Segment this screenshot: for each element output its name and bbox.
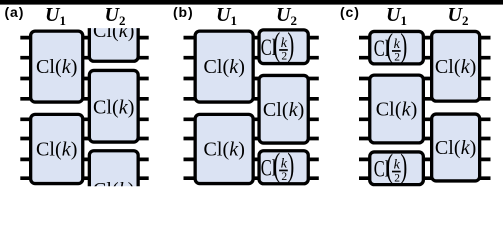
unitary U1 gate Cl(k) b-top xyxy=(195,31,253,102)
wire c q0 xyxy=(359,36,491,40)
svg-text:Cl(k): Cl(k) xyxy=(263,99,305,121)
wire c q7 xyxy=(359,176,491,180)
unitary U2 gate Cl(k) c-bottom xyxy=(432,114,480,181)
unitary U2 gate Cl(k) b-middle xyxy=(259,75,308,143)
svg-text:(a): (a) xyxy=(5,4,25,20)
wire a q7 xyxy=(20,176,148,180)
svg-text:Cl(k): Cl(k) xyxy=(36,139,77,161)
svg-text:2: 2 xyxy=(281,171,287,183)
wire b q1 xyxy=(184,56,319,60)
wire b q0 xyxy=(184,36,319,40)
svg-text:(: ( xyxy=(273,147,280,184)
wire b q3 xyxy=(184,97,319,101)
wire c q3 xyxy=(359,97,491,101)
wire b q7 xyxy=(184,176,319,180)
unitary U1 gate Cl(k) c-middle xyxy=(370,75,424,143)
svg-text:k: k xyxy=(394,158,401,173)
svg-text:(: ( xyxy=(273,27,280,64)
wire c q4 xyxy=(359,117,491,121)
svg-text:Cl(k): Cl(k) xyxy=(376,99,418,121)
wire b q6 xyxy=(184,158,319,162)
svg-text:k: k xyxy=(281,36,288,51)
svg-text:k: k xyxy=(281,157,288,172)
svg-text:): ) xyxy=(400,148,407,185)
wire c q1 xyxy=(359,56,491,60)
svg-text:): ) xyxy=(287,147,294,184)
unitary U1 gate Cl(k/2) c-bottom xyxy=(370,148,424,185)
svg-text:2: 2 xyxy=(394,172,400,184)
wire a q6 xyxy=(20,158,148,162)
wire a q0 xyxy=(20,36,148,40)
svg-text:(c): (c) xyxy=(340,4,360,20)
unitary U2 gate Cl(k/2) b-bottom xyxy=(259,147,308,184)
unitary U2 gate Cl(k) a-bottom (clipped) xyxy=(89,151,138,221)
svg-text:Cl(k): Cl(k) xyxy=(203,56,245,78)
svg-text:(: ( xyxy=(386,148,393,185)
svg-text:2: 2 xyxy=(394,52,400,64)
wire c q2 xyxy=(359,77,491,81)
wire b q5 xyxy=(184,137,319,141)
svg-text:2: 2 xyxy=(281,51,287,63)
wire b q2 xyxy=(184,77,319,81)
wire a q1 xyxy=(20,56,148,60)
wire a q2 xyxy=(20,77,148,81)
svg-text:(: ( xyxy=(386,28,393,65)
svg-text:Cl(k): Cl(k) xyxy=(36,56,77,78)
wire a q5 xyxy=(20,137,148,141)
wire a q3 xyxy=(20,97,148,101)
svg-text:Cl(k): Cl(k) xyxy=(93,97,135,119)
unitary U1 gate Cl(k/2) c-top xyxy=(370,28,424,65)
top border rule xyxy=(0,0,503,5)
svg-text:): ) xyxy=(287,27,294,64)
unitary U2 gate Cl(k/2) b-top xyxy=(259,27,308,64)
wire b q4 xyxy=(184,117,319,121)
wire a q4 xyxy=(20,117,148,121)
wire c q5 xyxy=(359,137,491,141)
svg-text:Cl(k): Cl(k) xyxy=(203,139,245,161)
svg-text:Cl(k): Cl(k) xyxy=(435,56,477,78)
unitary U1 gate Cl(k) b-bottom xyxy=(195,114,253,183)
svg-text:(b): (b) xyxy=(173,4,194,20)
svg-text:): ) xyxy=(400,28,407,65)
unitary U2 gate Cl(k) c-top xyxy=(432,31,480,101)
svg-text:Cl(k): Cl(k) xyxy=(435,137,477,159)
unitary U1 gate Cl(k) a-top xyxy=(31,31,83,102)
unitary U2 gate Cl(k) a-middle xyxy=(89,70,138,142)
svg-text:k: k xyxy=(394,37,401,52)
unitary U2 gate Cl(k) a-top (clipped) xyxy=(89,0,138,61)
wire c q6 xyxy=(359,158,491,162)
unitary U1 gate Cl(k) a-bottom xyxy=(31,114,83,183)
